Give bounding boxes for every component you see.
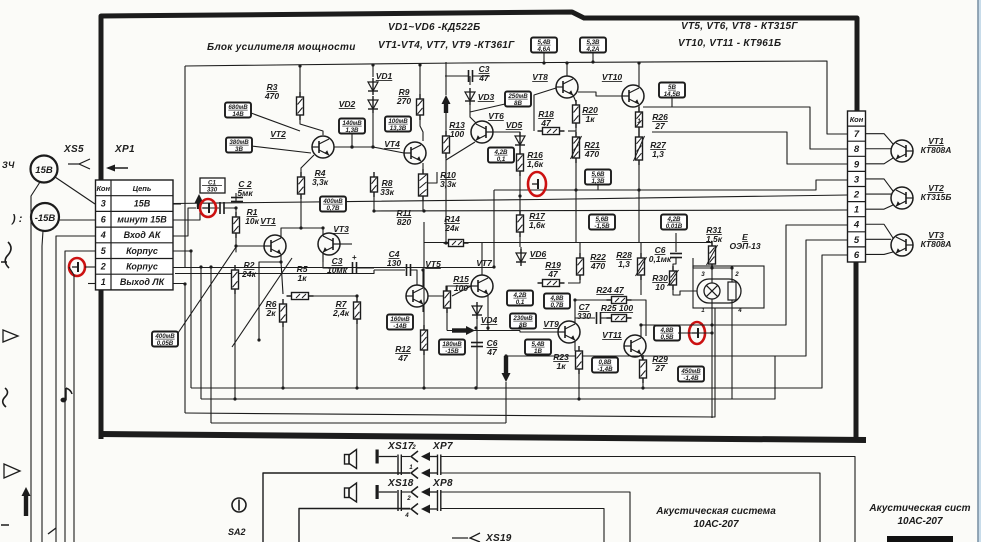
wire VT5 collector up: [422, 270, 424, 287]
label R10 3,3к: [440, 170, 457, 189]
junction: [209, 265, 212, 268]
label R23 1к: [553, 352, 569, 371]
optocoupler E ОЭП-13 lamp: [697, 271, 742, 314]
svg-text:С1: С1: [208, 180, 216, 187]
svg-text:4: 4: [100, 230, 106, 240]
transistor VT7: [471, 275, 493, 297]
svg-text:Выход ЛК: Выход ЛК: [120, 277, 166, 287]
svg-text:1: 1: [409, 464, 413, 471]
wire VD3 pointer: [470, 104, 505, 112]
margin triangle 2: [4, 464, 20, 478]
transistor VT2: [312, 136, 334, 158]
svg-text:2: 2: [100, 262, 106, 272]
svg-text:VT9: VT9: [543, 319, 559, 329]
wire pin5 branch: [506, 240, 848, 356]
wire R13 down: [445, 153, 447, 243]
junction: [710, 331, 713, 334]
wire emitter join R5: [281, 262, 283, 294]
wire VT1 emitter down: [259, 254, 281, 340]
svg-text:270: 270: [396, 96, 411, 106]
capacitor C6 47: [471, 343, 483, 347]
wire drop x211: [210, 267, 212, 423]
wire mid bus VT6 row: [424, 242, 712, 244]
svg-text:5: 5: [854, 235, 860, 246]
wire bus to pin9: [652, 132, 848, 164]
label R30 10: [652, 273, 668, 292]
wire VT10 collector: [638, 63, 640, 86]
svg-text:4,2В: 4,2В: [666, 216, 681, 223]
wire row2 left down: [69, 267, 74, 542]
wire VT5 emitter down: [422, 305, 424, 312]
svg-text:1к: 1к: [556, 361, 566, 371]
svg-text:470: 470: [590, 261, 605, 271]
wire VT3 collector down: [322, 252, 324, 262]
resistor R16: [517, 149, 524, 176]
junction: [372, 209, 375, 212]
wire 5,6В stub: [597, 184, 599, 190]
svg-text:1,6к: 1,6к: [529, 220, 546, 230]
wire C3 to VD3: [469, 76, 471, 85]
svg-text:3,3к: 3,3к: [440, 179, 457, 189]
wire pin to VT3 collector: [866, 224, 894, 238]
junction: [639, 323, 642, 326]
svg-text:VT10, VT11 - КТ961Б: VT10, VT11 - КТ961Б: [678, 38, 781, 49]
wire XP7 line 2: [441, 473, 820, 542]
svg-text:VD2: VD2: [339, 99, 356, 109]
resistor R26: [636, 107, 643, 132]
junction: [279, 260, 282, 263]
wire bottom bus 4: [211, 422, 506, 424]
wire pin to VT3 base: [866, 238, 892, 240]
svg-text:XP1: XP1: [114, 144, 135, 155]
wire bus to pin1: [374, 210, 848, 211]
wire R3 top: [299, 66, 301, 97]
wire row2 drop: [200, 267, 202, 399]
svg-text:820: 820: [397, 217, 411, 227]
wire ldr top: [712, 268, 732, 282]
meas box 5,4В 1В: [525, 340, 551, 356]
label VT1 КТ808А: [921, 136, 952, 155]
svg-text:1,3В: 1,3В: [345, 127, 359, 134]
resistor R25: [607, 315, 632, 322]
junction: [189, 249, 192, 252]
meas box 4,2В 0,01В top: [661, 215, 687, 231]
label R12 47: [395, 344, 411, 363]
wire VD6 up: [520, 247, 522, 253]
svg-text:ОЭП-13: ОЭП-13: [729, 241, 760, 251]
label R8 33к: [380, 178, 394, 197]
svg-text:VT11: VT11: [602, 330, 622, 340]
svg-text:КТ315Б: КТ315Б: [921, 192, 952, 202]
wire R12 down: [423, 350, 425, 388]
wire pin to VT1 emitter: [866, 158, 894, 164]
label VT2 КТ315Б: [921, 183, 952, 202]
svg-text:XS17: XS17: [387, 441, 414, 452]
label C6 47: [486, 338, 498, 357]
label VT9: [543, 319, 559, 329]
svg-text:6: 6: [854, 250, 860, 261]
label VT1: [260, 216, 276, 226]
meas box 5,6В 1,3В: [585, 170, 611, 186]
svg-text:VD6: VD6: [530, 249, 547, 259]
pointer 400мВ/0,05В: [178, 247, 236, 333]
label E ОЭП-13: [729, 232, 760, 251]
wire 5,4В stub: [543, 53, 545, 63]
wire bottom bus 2: [201, 356, 775, 399]
wire XP7 line 1: [441, 457, 855, 543]
svg-text:0,5В: 0,5В: [660, 334, 674, 341]
wire R4 down: [300, 194, 302, 228]
svg-text:2: 2: [734, 271, 739, 278]
svg-text:9: 9: [854, 159, 860, 170]
wire lamp pin1 down: [711, 299, 713, 418]
speaker icon 1: [345, 450, 357, 469]
svg-text:1,5к: 1,5к: [706, 234, 723, 244]
svg-text:VD5: VD5: [506, 120, 523, 130]
wire VT8 to VT10 base: [578, 92, 622, 96]
svg-text:10мк: 10мк: [327, 265, 348, 275]
svg-text:2: 2: [853, 190, 860, 201]
resistor R18: [538, 128, 565, 135]
output transistor VT3: [891, 234, 913, 256]
junction: [257, 338, 260, 341]
svg-text:XP8: XP8: [432, 478, 453, 489]
svg-text:-15В: -15В: [35, 213, 56, 224]
resistor R31 var: [707, 241, 718, 269]
meas box 5,4В 4,6А: [531, 38, 557, 54]
svg-text:400мВ: 400мВ: [154, 333, 175, 340]
diode VD2: [368, 96, 378, 113]
svg-text:3: 3: [854, 174, 860, 185]
optocoupler enclosure: [693, 266, 764, 308]
wire TP4 stub: [678, 332, 712, 334]
wire C6 low: [673, 258, 676, 271]
svg-text:100мВ: 100мВ: [388, 118, 408, 125]
wire VT2 emitter: [301, 155, 314, 177]
svg-text:VT6: VT6: [488, 111, 504, 121]
svg-text:0,7В: 0,7В: [326, 205, 340, 212]
svg-text:VT2: VT2: [270, 129, 286, 139]
wire input to C1: [202, 207, 219, 209]
label VD1: [376, 71, 393, 81]
label R24 47: [596, 285, 625, 295]
meas box 680мВ 14В: [225, 103, 251, 119]
wire VT9 base: [520, 331, 558, 333]
resistor R21 var: [571, 132, 582, 163]
wire VT10 emitter: [638, 105, 640, 112]
wire C3 left: [323, 252, 348, 268]
transistor VT4: [404, 142, 426, 164]
label VD4: [481, 315, 498, 325]
resistor R14: [444, 240, 469, 247]
wire pin to VT2 collector: [866, 179, 894, 191]
bold arrow down: [502, 356, 511, 382]
svg-text:10к: 10к: [245, 216, 259, 226]
svg-text:+: +: [352, 253, 357, 262]
connector XS18-XP8: [376, 485, 441, 515]
svg-text:5,4В: 5,4В: [531, 341, 545, 348]
label R25 100: [601, 303, 633, 313]
wire x506 drop: [505, 382, 507, 423]
svg-text:Кон: Кон: [850, 115, 864, 124]
wire VT2 base row: [334, 146, 352, 148]
svg-text:VT8: VT8: [532, 72, 548, 82]
meas box 230мВ 8В: [510, 314, 536, 330]
wire input row4 up: [173, 208, 196, 236]
svg-text:VD1~VD6 -КД522Б: VD1~VD6 -КД522Б: [388, 22, 481, 33]
diode VD3: [465, 88, 475, 105]
svg-text:5,4В: 5,4В: [537, 39, 551, 46]
wire VD2 to node: [372, 113, 374, 147]
svg-text:1к: 1к: [297, 273, 307, 283]
label C7 330: [577, 302, 591, 321]
svg-text:4,2В: 4,2В: [493, 149, 508, 156]
wire R24 to VT11: [627, 300, 646, 336]
pointer 680мВ: [251, 113, 300, 131]
svg-text:XS18: XS18: [387, 478, 414, 489]
svg-text:250мВ: 250мВ: [507, 93, 528, 100]
wire pin4 branch: [641, 225, 848, 325]
svg-text:VD3: VD3: [478, 92, 495, 102]
svg-text:1,3: 1,3: [618, 259, 630, 269]
power amp block frame: [99, 12, 866, 440]
wire bottom bus 3: [185, 308, 715, 417]
junction: [421, 268, 424, 271]
transistor VT8: [556, 76, 578, 98]
wire R19 right: [568, 258, 580, 283]
transistor VT5: [406, 285, 428, 307]
svg-text:) :: ) :: [11, 213, 23, 225]
svg-text:1: 1: [701, 307, 705, 314]
wire node to VT4 base: [373, 147, 404, 153]
svg-text:Вход АК: Вход АК: [124, 230, 162, 240]
svg-text:14В: 14В: [232, 111, 244, 118]
diode VD6: [516, 249, 526, 266]
svg-text:R24 47: R24 47: [596, 285, 625, 295]
svg-text:4,8В: 4,8В: [549, 295, 564, 302]
meas box 450мВ -1,4В: [678, 367, 704, 383]
label VT8: [532, 72, 548, 82]
junction: [355, 294, 358, 297]
resistor R13: [443, 131, 450, 158]
svg-text:380мВ: 380мВ: [229, 139, 249, 146]
resistor R3: [297, 92, 304, 120]
svg-text:4,8В: 4,8В: [659, 327, 674, 334]
connector circle 15В: [31, 156, 58, 183]
resistor R12: [421, 325, 428, 355]
svg-text:1к: 1к: [585, 114, 595, 124]
svg-text:47: 47: [478, 73, 490, 83]
label R11 820: [397, 208, 412, 227]
svg-text:3: 3: [701, 271, 705, 278]
svg-text:VT10: VT10: [602, 72, 623, 82]
label R14 24к: [444, 214, 460, 233]
capacitor C6 0,1мк: [670, 254, 682, 258]
wire -15В to table row 6: [59, 219, 95, 221]
wire ldr pin4 down: [731, 300, 733, 399]
svg-text:33к: 33к: [380, 187, 394, 197]
transistor VT11: [624, 335, 646, 357]
wire pin3 vertical drop: [493, 190, 495, 267]
label VT5: [425, 259, 441, 269]
svg-text:2: 2: [406, 495, 411, 502]
junction: [418, 63, 421, 66]
capacitor C7: [597, 312, 601, 324]
junction: [474, 386, 477, 389]
junction: [486, 326, 489, 329]
svg-text:5,3В: 5,3В: [586, 39, 600, 46]
svg-text:Акустическая система: Акустическая система: [655, 506, 776, 517]
svg-text:0,8В: 0,8В: [598, 359, 612, 366]
wire VT9 collector: [575, 300, 611, 323]
junction: [641, 386, 644, 389]
svg-text:2,4к: 2,4к: [332, 308, 350, 318]
svg-text:4,6А: 4,6А: [536, 46, 551, 53]
svg-text:680мВ: 680мВ: [228, 104, 248, 111]
junction: [574, 188, 577, 191]
wire R12 chain: [423, 222, 425, 330]
svg-text:-1,4В: -1,4В: [597, 366, 613, 373]
junction: [492, 265, 495, 268]
label C2 5мк: [237, 179, 253, 198]
wire -15В down bus: [42, 231, 43, 542]
wire R31 top: [711, 242, 713, 246]
svg-text:5,6В: 5,6В: [595, 216, 609, 223]
wire VD4 down: [476, 319, 478, 388]
wire VT11 collector: [640, 325, 642, 337]
svg-text:27: 27: [654, 363, 666, 373]
junction: [577, 397, 580, 400]
label R18 47: [538, 109, 554, 128]
wire R6 down: [282, 322, 284, 388]
bold arrow VD4: [452, 326, 475, 335]
svg-text:минут 15В: минут 15В: [117, 214, 167, 224]
meas box 400мВ 0,7В: [320, 197, 346, 213]
label VD2: [339, 99, 356, 109]
wire row1 output drop: [173, 284, 185, 414]
svg-text:13,3В: 13,3В: [390, 125, 407, 132]
junction: [565, 61, 568, 64]
junction: [730, 266, 733, 269]
wire pin6 branch: [191, 255, 848, 388]
svg-text:VD4: VD4: [481, 315, 498, 325]
resistor R22: [577, 253, 584, 280]
svg-text:-1,5В: -1,5В: [594, 223, 610, 230]
svg-text:Акустическая сист: Акустическая сист: [868, 503, 970, 514]
label R20 1к: [582, 105, 598, 124]
label R19 47: [545, 260, 561, 279]
wire R27 down: [638, 160, 640, 242]
junction: [299, 226, 302, 229]
svg-text:VT3: VT3: [333, 224, 349, 234]
svg-text:47: 47: [397, 353, 409, 363]
resistor R15: [444, 286, 451, 313]
svg-text:140мВ: 140мВ: [342, 120, 362, 127]
svg-text:8В: 8В: [514, 100, 522, 107]
wire VT6 base to VD5: [493, 132, 520, 136]
output transistor VT1: [891, 140, 913, 162]
wire TP1 to row2: [85, 266, 95, 268]
label R6 2к: [265, 299, 276, 318]
junction: [474, 326, 477, 329]
svg-text:7: 7: [854, 129, 860, 140]
wire lamp top: [693, 258, 712, 283]
label VT3: [333, 224, 349, 234]
wire pin to VT1 collector: [866, 134, 894, 144]
diode VD1: [368, 78, 378, 95]
junction: [637, 188, 640, 191]
svg-text:VD1: VD1: [376, 71, 393, 81]
resistor R28: [636, 253, 647, 280]
output transistor VT2: [891, 187, 913, 209]
svg-text:4: 4: [404, 512, 409, 519]
wire VT4 collector down: [422, 163, 424, 174]
svg-text:47: 47: [547, 269, 559, 279]
wire R5 to R7 node: [310, 295, 357, 297]
wire row6 to arrow: [173, 209, 200, 220]
svg-text:8: 8: [854, 144, 860, 155]
resistor R7: [354, 297, 361, 324]
wire VD5 down: [519, 149, 521, 154]
margin tick marks: [1, 262, 56, 534]
connector XS17-XP7: [376, 450, 441, 479]
wire C7 left: [575, 317, 595, 319]
junction: [234, 206, 237, 209]
junction: [321, 226, 324, 229]
svg-text:XS19: XS19: [485, 533, 512, 542]
junction: [518, 326, 521, 329]
svg-text:230мВ: 230мВ: [512, 315, 533, 322]
connector table Кон right: [848, 111, 866, 262]
label R13 100: [449, 120, 465, 139]
junction: [573, 298, 576, 301]
wire row1 left stub: [88, 283, 95, 285]
margin glyph note: [61, 388, 73, 402]
wire XP8 line 2: [441, 509, 604, 543]
wire C4 left: [374, 269, 405, 271]
meas box 140мВ 1,3В: [339, 119, 365, 135]
svg-text:1: 1: [101, 277, 106, 287]
resistor R6: [280, 299, 287, 327]
label R1 10к: [245, 207, 259, 226]
label R29 27: [652, 354, 668, 373]
wire pin to VT3 emitter: [866, 252, 894, 254]
svg-text:-15В: -15В: [445, 348, 459, 355]
meas box 4,8В 0,5В: [654, 326, 680, 342]
label VT11: [602, 330, 622, 340]
meas box 400мВ 0,05В: [152, 332, 178, 348]
junction: [422, 209, 425, 212]
wire R17 node: [519, 196, 521, 215]
test point TP3: [528, 172, 546, 196]
wire VT7 base diag: [452, 286, 471, 296]
wire R15 down: [446, 308, 448, 331]
junction: [234, 244, 237, 247]
meas box 5В 14,5В: [659, 83, 685, 99]
svg-text:180мВ: 180мВ: [442, 341, 462, 348]
wire R18 right: [568, 130, 576, 132]
speaker box right channel edge: [887, 536, 953, 542]
pointer 200мВ/-14В: [232, 258, 292, 347]
label VD5: [506, 120, 523, 130]
svg-text:3: 3: [101, 199, 106, 209]
wire VT6 emitter down: [446, 142, 475, 160]
wire bus to pin2: [173, 195, 848, 204]
junction: [591, 60, 594, 63]
junction: [371, 63, 374, 66]
junction: [444, 241, 447, 244]
capacitor C1: [220, 202, 224, 214]
